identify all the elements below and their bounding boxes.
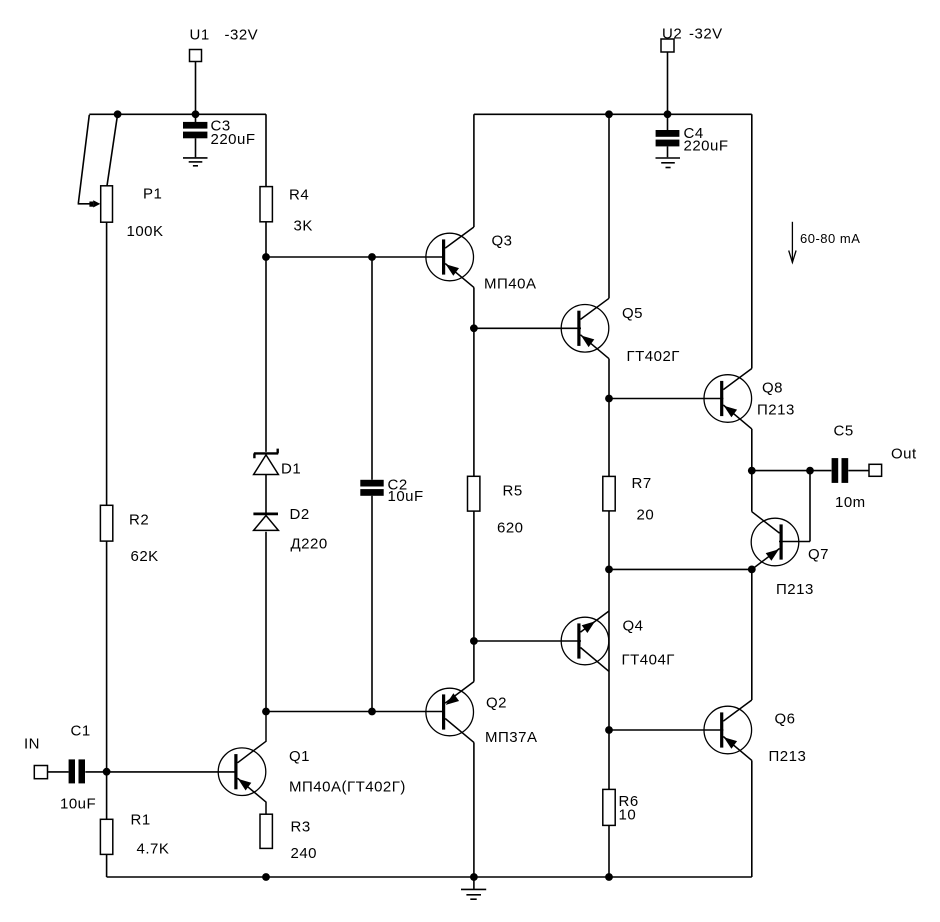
wire top-left bus <box>89 113 266 115</box>
wire P1 bottom to R2 <box>106 222 108 505</box>
wire right rail Q6 emitter to bottom bus <box>751 760 753 877</box>
node Q5 rail top <box>605 110 613 118</box>
wire left rail top (bus to Q3 collector) <box>473 114 475 227</box>
resistor R3 <box>260 814 272 848</box>
wire Q4 base <box>474 640 581 642</box>
wire right rail top (bus to Q8 collector) <box>751 114 753 368</box>
svg-text:Q4: Q4 <box>623 618 644 635</box>
node R6 bottom <box>605 873 613 881</box>
wire D2 to lower bus <box>265 532 267 712</box>
wire top-right bus <box>474 113 752 115</box>
wire Q7 base <box>779 541 810 543</box>
svg-text:Q8: Q8 <box>762 380 783 397</box>
wire mid rail y569 to R6 <box>608 569 610 877</box>
svg-text:R1: R1 <box>131 812 151 829</box>
wire R2 to input node <box>106 541 108 772</box>
wire Q3 base <box>266 256 445 258</box>
node C2 top <box>368 253 376 261</box>
svg-text:R4: R4 <box>289 187 309 204</box>
node R4/Q3 base <box>262 253 270 261</box>
svg-text:Q6: Q6 <box>775 711 796 728</box>
svg-text:П213: П213 <box>776 581 814 598</box>
wire D1-D2 link <box>265 475 267 513</box>
transistor Q5 ГТ402Г <box>561 298 609 358</box>
terminal U1 <box>190 50 202 62</box>
svg-text:C1: C1 <box>71 723 91 740</box>
svg-text:R3: R3 <box>291 819 311 836</box>
wire C2 column lower <box>371 496 373 712</box>
node Q6 base tap <box>605 726 613 734</box>
wire U2 drop <box>667 52 669 114</box>
terminal U2 <box>661 39 674 52</box>
wire left rail Q3 emitter to R5 <box>473 287 475 476</box>
svg-text:60-80 mA: 60-80 mA <box>800 231 860 246</box>
svg-text:Q2: Q2 <box>486 695 507 712</box>
capacitor C3 <box>183 122 207 138</box>
svg-text:Q5: Q5 <box>622 305 643 322</box>
node mid-right y569 <box>748 566 756 574</box>
capacitor C5 <box>832 458 849 483</box>
resistor R7 <box>603 476 615 511</box>
svg-text:-32V: -32V <box>689 26 723 43</box>
transistor Q1 МП40А(ГТ402Г) <box>218 712 266 815</box>
svg-text:Д220: Д220 <box>291 536 328 553</box>
transistor Q2 МП37А <box>426 682 474 743</box>
svg-text:4.7K: 4.7K <box>137 841 170 858</box>
ground under C4 <box>656 158 681 168</box>
wire C2 column upper <box>371 257 373 480</box>
node mid-left y569 <box>605 566 613 574</box>
ground under C3 <box>183 158 208 166</box>
ground bottom center <box>461 889 486 899</box>
svg-text:C5: C5 <box>834 423 854 440</box>
svg-text:Q7: Q7 <box>808 546 829 563</box>
capacitor C1 <box>69 759 85 783</box>
svg-text:Q1: Q1 <box>289 748 310 765</box>
svg-text:U1: U1 <box>190 27 210 44</box>
capacitor C2 <box>360 480 383 496</box>
svg-text:3K: 3K <box>294 218 313 235</box>
svg-text:R5: R5 <box>503 483 523 500</box>
wire Q5 base <box>474 327 581 329</box>
wire C3 stem <box>195 114 197 157</box>
wire IN terminal to C1 <box>48 771 69 773</box>
wire right rail y569 to Q6 collector <box>751 569 753 700</box>
svg-text:62K: 62K <box>131 548 159 565</box>
wire right rail Q8 emitter to out node <box>751 429 753 471</box>
svg-text:620: 620 <box>497 520 524 537</box>
svg-text:220uF: 220uF <box>684 138 729 155</box>
svg-text:R7: R7 <box>632 475 652 492</box>
svg-text:-32V: -32V <box>225 27 259 44</box>
potentiometer P1 <box>101 186 113 222</box>
node Q8 base tap <box>605 395 613 403</box>
svg-text:10uF: 10uF <box>60 796 96 813</box>
wire Q8 base <box>609 398 723 400</box>
svg-text:Q3: Q3 <box>492 233 513 250</box>
wire input node to R1 <box>106 772 108 877</box>
wire P1 wiper <box>78 115 90 204</box>
svg-text:D1: D1 <box>281 461 301 478</box>
svg-text:П213: П213 <box>769 748 807 765</box>
resistor R4 <box>260 187 272 222</box>
wire mid horizontal y569 <box>609 568 752 570</box>
wire mid rail Q8 node to R7 <box>608 399 610 570</box>
svg-text:100K: 100K <box>127 223 164 240</box>
current arrow 60-80 mA <box>789 222 796 263</box>
terminal Out <box>869 464 882 476</box>
svg-text:D2: D2 <box>290 506 310 523</box>
svg-text:20: 20 <box>637 507 655 524</box>
transistor Q4 ГТ404Г (NPN) <box>561 611 609 671</box>
svg-text:240: 240 <box>291 845 318 862</box>
svg-text:U2: U2 <box>662 26 682 43</box>
svg-text:Out: Out <box>891 446 917 463</box>
wire node B to D1 <box>265 257 267 452</box>
wire R4 column <box>265 114 267 257</box>
wire mid rail Q5 emitter to Q8 node <box>608 359 610 399</box>
node output left <box>748 467 756 475</box>
node D2/Q1 collector <box>262 708 270 716</box>
resistor R1 <box>100 819 112 854</box>
wire left rail Q2 collector to bottom bus <box>473 742 475 877</box>
node ground bottom <box>470 873 478 881</box>
node R3 bottom <box>262 873 270 881</box>
wire mid rail bus to Q5 collector <box>608 114 610 298</box>
svg-text:П213: П213 <box>757 402 795 419</box>
svg-text:R2: R2 <box>129 512 149 529</box>
svg-text:10uF: 10uF <box>388 488 424 505</box>
svg-text:P1: P1 <box>143 186 162 203</box>
resistor R2 <box>100 505 112 541</box>
node output tap <box>806 467 814 475</box>
node U2/C4 <box>664 110 672 118</box>
svg-text:10m: 10m <box>835 494 866 511</box>
resistor R5 <box>468 476 480 511</box>
wire bottom bus <box>107 876 752 878</box>
node C2 bottom <box>368 708 376 716</box>
wire ground stem bottom <box>473 877 475 889</box>
transistor Q8 П213 <box>704 369 752 429</box>
svg-text:220uF: 220uF <box>211 131 256 148</box>
wire Q6 base <box>609 729 723 731</box>
wire output node to C5 <box>752 470 832 472</box>
transistor Q7 П213 (mirrored) <box>751 512 799 570</box>
wire C5 to Out terminal <box>848 470 869 472</box>
transistor Q3 МП40А <box>426 227 474 287</box>
terminal IN <box>34 766 47 779</box>
potentiometer P1 wiper arrow <box>89 202 93 207</box>
svg-text:МП40А: МП40А <box>484 276 536 293</box>
svg-text:IN: IN <box>24 736 40 753</box>
wire left rail R5 to Q2 emitter <box>473 511 475 681</box>
transistor Q6 П213 <box>704 700 752 760</box>
node U1/C3 <box>192 110 200 118</box>
wire output tap down <box>809 471 811 542</box>
wire right rail out node to Q7 collector <box>751 471 753 512</box>
zener diode D1 <box>254 449 279 475</box>
svg-text:ГТ404Г: ГТ404Г <box>622 652 675 669</box>
node P1 tap <box>114 110 122 118</box>
diode D2 <box>253 514 278 531</box>
svg-text:10: 10 <box>619 807 637 824</box>
wire U1 drop <box>195 62 197 115</box>
wire lower bus / Q2 base <box>266 711 445 713</box>
node Q4 base tap <box>470 637 478 645</box>
wire P1 top diagonal <box>107 114 118 186</box>
wire C4 stem <box>667 114 669 157</box>
node C1/R1 input <box>103 768 111 776</box>
svg-text:МП40А(ГТ402Г): МП40А(ГТ402Г) <box>289 779 406 796</box>
svg-text:МП37А: МП37А <box>485 729 537 746</box>
svg-text:ГТ402Г: ГТ402Г <box>627 348 680 365</box>
capacitor C4 <box>656 130 680 146</box>
resistor R6 <box>603 789 615 825</box>
wire C1 to Q1 base <box>85 771 236 773</box>
node Q5 base tap <box>470 324 478 332</box>
